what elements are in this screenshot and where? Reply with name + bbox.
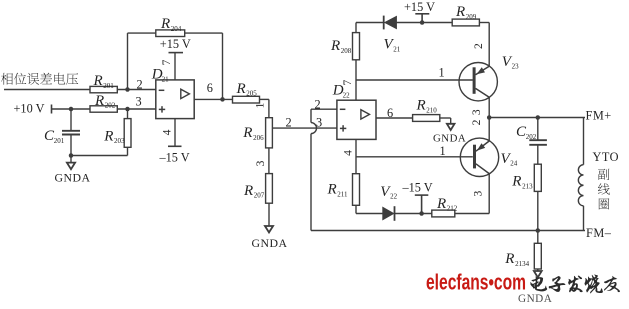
svg-text:201: 201	[54, 137, 65, 145]
svg-text:4: 4	[162, 129, 174, 135]
svg-text:2: 2	[471, 119, 483, 125]
svg-text:206: 206	[253, 134, 264, 142]
svg-text:GNDA: GNDA	[55, 170, 91, 184]
svg-text:21: 21	[393, 46, 401, 54]
svg-text:213: 213	[522, 182, 533, 190]
svg-text:203: 203	[114, 137, 125, 145]
svg-text:24: 24	[510, 160, 518, 168]
svg-text:205: 205	[246, 90, 257, 98]
svg-text:22: 22	[343, 91, 351, 99]
svg-text:R: R	[330, 38, 340, 54]
svg-text:204: 204	[171, 25, 182, 33]
svg-text:23: 23	[512, 63, 519, 71]
svg-text:21: 21	[162, 76, 170, 84]
svg-text:R: R	[160, 16, 170, 32]
svg-text:210: 210	[426, 106, 437, 114]
svg-text:212: 212	[447, 205, 458, 213]
svg-text:R: R	[103, 128, 113, 144]
svg-text:3: 3	[471, 109, 483, 115]
svg-text:R: R	[236, 81, 246, 97]
svg-text:3: 3	[472, 190, 484, 196]
svg-text:+15 V: +15 V	[404, 0, 435, 14]
svg-text:YTO: YTO	[593, 150, 620, 164]
svg-text:207: 207	[254, 192, 265, 200]
svg-text:+10 V: +10 V	[14, 102, 45, 116]
svg-text:R: R	[93, 73, 103, 89]
svg-text:1: 1	[439, 65, 445, 79]
svg-text:R: R	[455, 4, 465, 20]
svg-text:3: 3	[255, 160, 267, 166]
svg-text:GNDA: GNDA	[252, 236, 288, 250]
svg-text:7: 7	[342, 79, 354, 85]
svg-text:R: R	[327, 182, 337, 198]
svg-text:R: R	[511, 174, 521, 190]
svg-text:–15 V: –15 V	[402, 181, 433, 195]
svg-text:1: 1	[440, 144, 446, 158]
svg-text:1: 1	[254, 102, 266, 108]
svg-text:2134: 2134	[515, 260, 530, 268]
svg-text:FM–: FM–	[586, 226, 612, 240]
svg-text:3: 3	[136, 94, 142, 108]
svg-text:209: 209	[466, 13, 477, 21]
svg-text:GNDA: GNDA	[518, 293, 552, 304]
svg-text:FM+: FM+	[586, 108, 612, 122]
svg-text:R: R	[436, 196, 446, 212]
svg-text:R: R	[242, 125, 252, 141]
svg-text:R: R	[94, 93, 104, 109]
svg-text:2: 2	[473, 43, 485, 49]
svg-text:elecfans•com: elecfans•com	[426, 270, 526, 295]
svg-text:R: R	[504, 251, 514, 267]
svg-text:R: R	[416, 98, 426, 114]
svg-text:2: 2	[137, 77, 143, 91]
svg-text:22: 22	[390, 193, 398, 201]
svg-text:211: 211	[337, 190, 348, 198]
svg-text:R: R	[243, 183, 253, 199]
svg-text:GNDA: GNDA	[433, 132, 466, 144]
svg-text:6: 6	[387, 106, 393, 120]
svg-text:208: 208	[341, 47, 352, 55]
svg-text:–15 V: –15 V	[159, 150, 190, 164]
svg-text:6: 6	[207, 81, 213, 95]
svg-text:7: 7	[161, 59, 173, 65]
svg-text:3: 3	[316, 115, 322, 129]
svg-text:2: 2	[315, 97, 321, 111]
svg-text:202: 202	[526, 133, 537, 141]
svg-text:202: 202	[105, 102, 116, 110]
svg-text:2: 2	[286, 115, 292, 129]
svg-text:+15 V: +15 V	[160, 37, 191, 51]
svg-text:201: 201	[103, 82, 114, 90]
svg-text:4: 4	[343, 150, 355, 156]
